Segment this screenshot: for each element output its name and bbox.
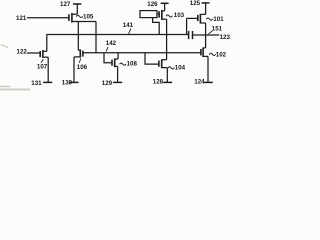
svg-text:151: 151 [212,25,223,32]
svg-text:130: 130 [62,80,73,87]
scan smudge bottom left corner [0,89,30,91]
wire 108 drain to bus 142 [117,53,119,59]
svg-text:127: 127 [60,1,71,8]
power terminal 127 [73,3,81,5]
transistor 102 [201,47,208,57]
wire 108 gate drop [104,53,111,63]
leader 142 [106,47,108,51]
leader 151 [208,31,212,34]
leader 107 [41,59,43,62]
wire 101 gate [187,17,198,19]
wire 104 drain to bus 142 [166,53,168,60]
svg-text:142: 142 [106,40,117,47]
svg-text:129: 129 [102,80,113,87]
terminal 124 [204,81,213,83]
svg-text:122: 122 [17,49,28,56]
svg-text:128: 128 [153,78,164,85]
wire 103 gate loop to bus 141 [153,18,160,35]
label ~102 [209,53,215,55]
power terminal 125 [202,2,210,4]
wire box to 103 gate [157,13,158,15]
label ~101 [206,18,212,20]
label ~108 [120,63,126,65]
svg-text:103: 103 [174,12,185,19]
terminal 131 [43,81,52,83]
power terminal 126 [161,2,169,4]
wire 107 source down [47,57,49,83]
wire 104 gate feed [145,53,158,64]
svg-text:126: 126 [147,1,158,8]
wire node A to bus 142 [95,22,97,53]
wire 101 gate down to bus 141 [186,18,188,34]
wire 102 source down [207,56,209,83]
wire 105 drain to power [76,4,78,14]
wire 121 input [27,17,68,19]
svg-text:102: 102 [216,51,227,58]
wire 103 drain to power [164,3,166,11]
transistor 105 [69,13,78,23]
bus 142 [84,52,201,54]
wire 122 input [27,52,40,54]
wire bus141 left drop to 107 drain [46,35,48,52]
wire 108 source down [117,66,119,83]
capacitor 151 right plate [192,31,194,39]
label ~103 [166,15,172,17]
transistor 108 [112,58,118,67]
svg-text:107: 107 [37,63,48,70]
svg-text:124: 124 [194,78,205,85]
wire node A down to bus 141 and 106 drain [77,22,79,51]
svg-text:101: 101 [213,16,224,23]
svg-text:131: 131 [31,80,42,87]
wire 103 source down to bus 142 [166,19,168,53]
transistor 101 [198,14,206,24]
terminal 129 [113,81,122,83]
wire 101 source to 102 drain [205,23,207,48]
scan smudge left edge [1,45,8,48]
resistor box at gate of 103 [140,11,157,18]
wire node A horizontal [78,21,96,23]
svg-text:106: 106 [77,64,88,71]
label ~104 [168,67,174,69]
wire capacitor to output node and 123 [193,34,219,36]
transistor 107 [40,50,48,58]
wire 106 source down [73,57,75,83]
wire 104 source down [166,68,168,83]
terminal 130 [70,81,79,83]
label ~105 [76,15,82,17]
svg-text:125: 125 [190,0,201,7]
svg-text:104: 104 [175,65,186,72]
bus 141 [47,34,189,36]
svg-text:105: 105 [83,14,94,21]
capacitor 151 left plate [188,31,190,39]
leader 141 [129,28,131,33]
svg-text:141: 141 [123,22,134,29]
transistor 104 [159,59,167,68]
leader 106 [79,59,81,63]
svg-text:121: 121 [16,15,27,22]
svg-text:123: 123 [220,34,231,41]
transistor 103 [159,10,167,20]
wire 101 drain to power [205,3,207,15]
svg-text:108: 108 [127,61,138,68]
transistor 106 [74,49,83,57]
terminal 128 [163,81,172,83]
